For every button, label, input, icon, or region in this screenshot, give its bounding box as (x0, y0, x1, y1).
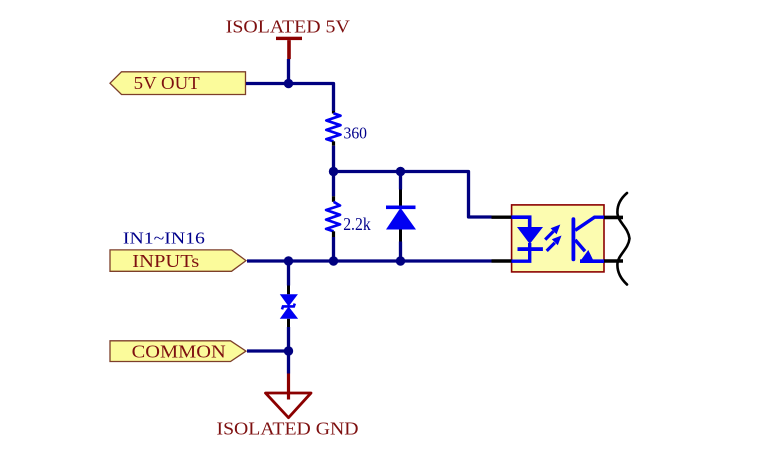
wire power stem to net (287, 59, 290, 84)
wire middle rail to optocoupler anode (334, 172, 492, 218)
port INPUTS (110, 250, 246, 271)
optocoupler U1 body (512, 205, 604, 272)
wire COMMON to node (247, 349, 289, 352)
svg-text:360: 360 (344, 124, 368, 143)
junction node middle left (329, 167, 338, 176)
wire 5V rail (246, 84, 334, 112)
ground symbol ISOLATED GND (266, 393, 312, 418)
optocoupler phototransistor (573, 217, 604, 261)
svg-text:IN1~IN16: IN1~IN16 (123, 229, 205, 248)
optocoupler pin collector (604, 216, 623, 220)
junction COMMON node (284, 346, 293, 355)
resistor R 360 (326, 111, 340, 146)
junction node middle right (396, 167, 405, 176)
svg-text:2.2k: 2.2k (343, 214, 371, 234)
svg-text:COMMON: COMMON (132, 341, 226, 361)
power symbol ISOLATED 5V (276, 37, 302, 59)
port COMMON (110, 341, 246, 362)
optocoupler pin 1 anode (492, 215, 513, 218)
resistor R 2.2k (326, 172, 340, 262)
wire to ground (287, 351, 290, 374)
junction bottom rail diode (396, 256, 405, 265)
junction input node (284, 256, 293, 265)
svg-text:ISOLATED GND: ISOLATED GND (217, 419, 359, 439)
optocoupler light arrows (545, 225, 561, 251)
wire R360 to middle rail (332, 146, 335, 172)
optocoupler pin emitter (604, 259, 623, 263)
junction 5V node (284, 79, 293, 88)
TVS diode bidirectional (280, 261, 298, 351)
off-sheet squiggle (617, 193, 629, 285)
wire input bottom rail (247, 259, 492, 262)
optocoupler LED (512, 217, 544, 261)
svg-text:ISOLATED 5V: ISOLATED 5V (226, 17, 350, 37)
optocoupler pin 2 cathode (492, 259, 513, 262)
svg-text:5V OUT: 5V OUT (134, 73, 200, 93)
port 5V OUT (110, 72, 246, 95)
diode D1 clamp (386, 172, 416, 262)
junction bottom rail R2.2k (329, 256, 338, 265)
svg-text:INPUTs: INPUTs (132, 251, 199, 271)
